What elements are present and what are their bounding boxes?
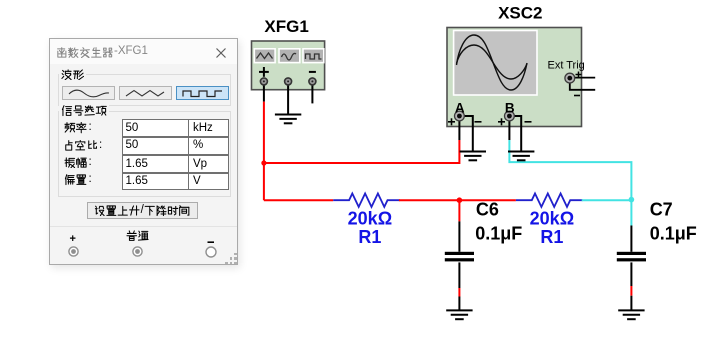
svg-text:R1: R1 [540,227,563,247]
svg-text:20kΩ: 20kΩ [530,209,574,229]
svg-text:R1: R1 [358,227,381,247]
svg-text:XFG1: XFG1 [264,17,308,36]
svg-text:XSC2: XSC2 [498,4,542,23]
svg-text:C6: C6 [476,200,499,220]
svg-text:0.1μF: 0.1μF [650,224,697,244]
svg-text:B: B [505,101,515,116]
svg-text:Ext Trig: Ext Trig [548,60,585,72]
svg-text:C7: C7 [650,200,673,220]
svg-text:20kΩ: 20kΩ [348,209,392,229]
svg-text:A: A [455,101,465,116]
svg-text:0.1μF: 0.1μF [475,224,522,244]
